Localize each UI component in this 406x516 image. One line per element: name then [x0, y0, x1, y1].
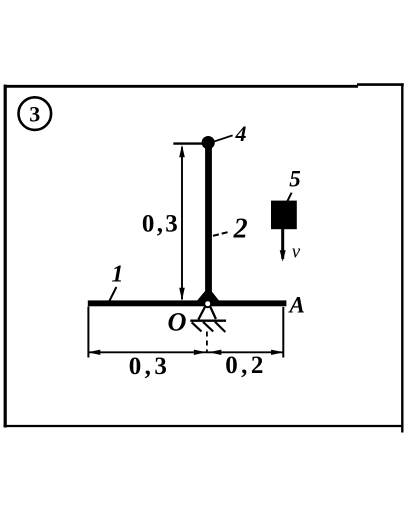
bottom dimension line — [88, 350, 284, 355]
bar 1 (horizontal beam) — [88, 300, 287, 306]
svg-text:0,3: 0,3 — [129, 353, 170, 380]
svg-text:A: A — [288, 293, 305, 318]
right extension line — [282, 307, 284, 358]
leader line to 4 — [215, 135, 233, 141]
svg-text:0,3: 0,3 — [142, 211, 180, 238]
svg-text:1: 1 — [112, 262, 124, 288]
leader line to 1 — [109, 287, 117, 303]
dashed extension below O — [206, 332, 208, 353]
rod 2 (vertical bar) — [205, 142, 212, 301]
pin at O — [204, 300, 211, 307]
gusset at rod base — [194, 292, 223, 306]
velocity arrow v — [280, 229, 286, 262]
svg-text:O: O — [168, 308, 187, 337]
top extension line — [173, 142, 202, 144]
ball (node 4) at top of rod — [202, 136, 215, 149]
support hatching — [192, 322, 226, 332]
frame (border) — [4, 83, 404, 432]
svg-text:3: 3 — [29, 102, 40, 127]
svg-text:2: 2 — [233, 214, 248, 245]
pivot support triangle — [190, 307, 226, 321]
svg-text:5: 5 — [289, 167, 301, 192]
svg-text:v: v — [292, 242, 301, 263]
svg-text:4: 4 — [235, 121, 247, 146]
problem number circle 3 — [19, 97, 52, 130]
leader line to 5 — [287, 193, 291, 202]
svg-text:0,2: 0,2 — [225, 352, 266, 379]
left extension line — [87, 307, 89, 358]
vertical dimension line 0,3 — [179, 145, 185, 300]
leader line to 2 — [213, 232, 230, 236]
block 5 (falling body) — [271, 201, 297, 230]
